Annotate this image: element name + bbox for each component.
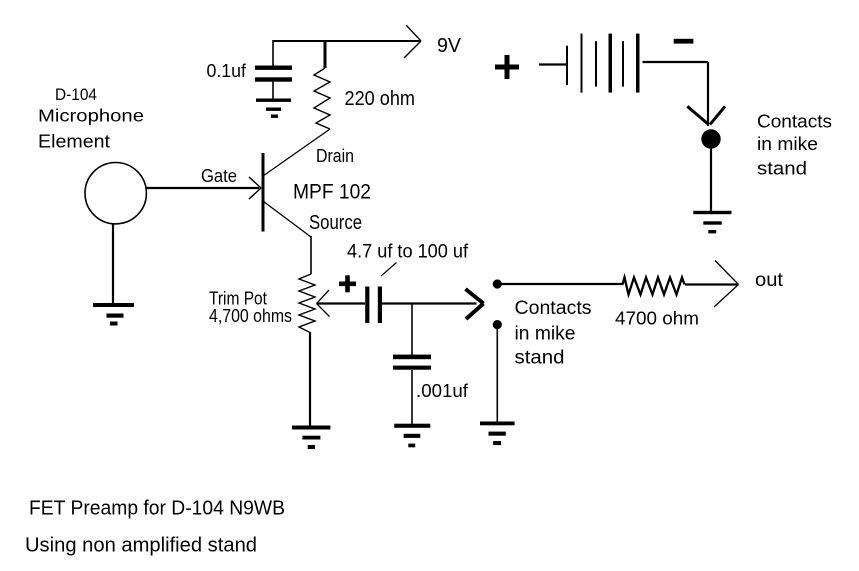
- plug arrow (big): [466, 289, 484, 319]
- node contact bottom dot: [493, 320, 502, 329]
- wire cap to ground: [272, 80, 274, 100]
- svg-text:Gate: Gate: [201, 166, 237, 186]
- trim pot R2 zigzag: [299, 274, 315, 333]
- wire gate: [147, 187, 260, 189]
- wire bottom dot to ground: [496, 329, 498, 422]
- ground (mike stand contact): [693, 211, 731, 234]
- svg-text:stand: stand: [515, 348, 565, 369]
- svg-text:0.1uf: 0.1uf: [207, 61, 247, 81]
- svg-text:Microphone: Microphone: [38, 106, 144, 126]
- wire contact to ground: [710, 148, 712, 212]
- svg-text:4,700 ohms: 4,700 ohms: [209, 305, 292, 326]
- svg-text:.001uf: .001uf: [416, 381, 469, 401]
- resistor R3 4700 ohm: [623, 278, 685, 295]
- 9V arrow head: [404, 25, 421, 58]
- transistor Q1 MPF102 body bar: [262, 153, 265, 232]
- node contact top dot: [493, 279, 502, 288]
- battery B1 plates: [566, 34, 640, 93]
- resistor R1 220 ohm: [314, 68, 330, 129]
- svg-text:Element: Element: [38, 131, 110, 152]
- label Contacts in mike stand (top right): [757, 112, 832, 179]
- wire 9V rail: [273, 40, 421, 42]
- svg-text:4700 ohm: 4700 ohm: [615, 308, 699, 329]
- wire resistor to out arrow: [685, 283, 738, 285]
- gate arrow head: [249, 177, 261, 199]
- wire .001 cap to ground: [411, 370, 413, 424]
- wire negative drop: [707, 62, 709, 126]
- svg-text:220 ohm: 220 ohm: [345, 87, 416, 110]
- ground (trim pot): [292, 426, 330, 450]
- plus sign (battery): [495, 55, 519, 79]
- ground (.001uf): [394, 424, 430, 448]
- wire top dot to resistor: [501, 283, 623, 285]
- svg-text:FET Preamp for D-104 N9WB: FET Preamp for D-104 N9WB: [29, 498, 285, 520]
- wire battery negative lead: [643, 61, 709, 63]
- svg-text:in mike: in mike: [515, 324, 576, 345]
- wire pot to ground: [309, 333, 311, 426]
- capacitor C3 .001uf: [393, 355, 431, 370]
- svg-text:Using non amplified stand: Using non amplified stand: [25, 535, 257, 557]
- wire source vertical: [310, 236, 312, 274]
- wire .001 cap branch: [411, 304, 413, 356]
- svg-text:Contacts: Contacts: [515, 298, 592, 319]
- arrow head down (to contact): [687, 106, 725, 124]
- svg-text:stand: stand: [757, 159, 807, 179]
- svg-text:D-104: D-104: [55, 86, 97, 104]
- svg-text:out: out: [755, 270, 784, 291]
- minus sign (battery): [674, 39, 694, 44]
- svg-text:Source: Source: [309, 212, 362, 234]
- out arrow head: [714, 261, 739, 308]
- wire wiper to cap: [317, 302, 365, 304]
- node contact dot (mike stand): [701, 129, 720, 148]
- capacitor C1 0.1uf: [255, 66, 292, 82]
- wire battery positive lead: [539, 63, 567, 65]
- svg-text:Contacts: Contacts: [757, 112, 832, 132]
- svg-text:4.7 uf to 100 uf: 4.7 uf to 100 uf: [347, 242, 469, 263]
- wire drain diagonal: [263, 129, 330, 176]
- label Trim Pot 4,700 ohms: [209, 288, 292, 327]
- microphone element circle: [85, 163, 146, 224]
- svg-text:MPF 102: MPF 102: [293, 180, 371, 204]
- wire source diagonal: [264, 202, 311, 237]
- ground (switch): [480, 422, 515, 446]
- trim pot wiper arrow: [317, 290, 330, 317]
- label D-104 Microphone Element: [38, 86, 144, 152]
- wire mic to ground: [112, 224, 114, 304]
- svg-text:9V: 9V: [437, 35, 462, 57]
- ground (microphone): [93, 303, 134, 326]
- svg-text:in mike: in mike: [757, 134, 818, 154]
- wire cap branch top: [272, 40, 274, 66]
- plus sign (electrolytic): [339, 275, 356, 292]
- ground (0.1uf): [256, 99, 291, 118]
- wire resistor stub: [324, 40, 327, 68]
- pointer line to cap: [381, 263, 397, 277]
- capacitor C2 4.7uf electrolytic: [365, 287, 382, 324]
- wire cap to arrow: [381, 302, 477, 304]
- svg-text:Drain: Drain: [316, 146, 354, 166]
- label Contacts in mike stand (switch): [515, 298, 592, 369]
